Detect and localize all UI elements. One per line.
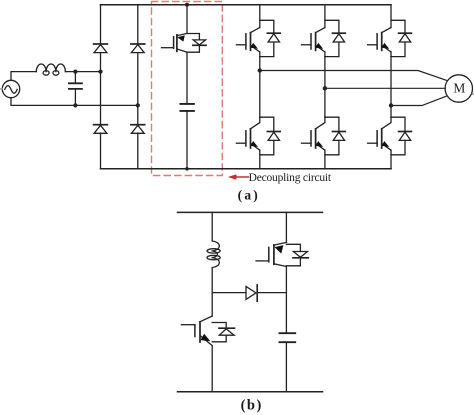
section b bottom rail [178, 391, 323, 393]
node phase B [323, 86, 327, 90]
igbt Q4 inverter leg A bottom [236, 117, 280, 169]
motor M [445, 75, 474, 102]
wire leg B mid [324, 57, 326, 118]
wire b middle link right [257, 292, 286, 294]
capacitor Cb [280, 333, 296, 342]
igbt Q6 inverter leg C bottom [368, 117, 412, 169]
wire b right upper [285, 212, 287, 242]
diode D3 [94, 125, 108, 134]
wire decoupling branch mid [186, 52, 188, 104]
wire b left upper [211, 212, 213, 241]
wire leg C mid [390, 57, 392, 118]
wire decoupling branch upper [186, 5, 188, 34]
wire b right lower [285, 342, 287, 392]
diode Db series [246, 285, 257, 301]
capacitor Cd [180, 104, 194, 111]
node filter cap top [73, 70, 77, 74]
wire rectifier leg2 [137, 5, 139, 169]
svg-text:(b): (b) [241, 398, 263, 414]
node decoupling branch bottom [185, 167, 189, 171]
diode D2 [131, 44, 145, 53]
wire phase B to motor [325, 87, 445, 89]
wire b right mid [285, 267, 287, 334]
section b top rail [178, 211, 323, 213]
capacitor Cf [69, 72, 82, 106]
igbt Q5 inverter leg B bottom [302, 117, 346, 169]
igbt Q7 decoupling (mirrored) [162, 33, 207, 52]
inductor Lb [207, 241, 220, 268]
red arrow to decoupling box [228, 174, 249, 179]
node ac bottom to leg2 [136, 103, 140, 107]
inductor Ls [36, 64, 65, 75]
wire b left mid [211, 268, 213, 316]
node filter cap bottom [73, 103, 77, 107]
igbt Q2 inverter leg B top [302, 5, 346, 57]
wire phase A to motor [260, 71, 448, 81]
wire phase C to motor [391, 96, 447, 106]
svg-text:(a): (a) [238, 187, 260, 202]
diode D4 [131, 125, 145, 134]
svg-text:M: M [453, 80, 465, 95]
svg-text:Decoupling circuit: Decoupling circuit [249, 172, 332, 184]
dc top bus wire [101, 4, 392, 6]
node phase C [389, 103, 393, 107]
wire rectifier leg1 [100, 5, 102, 169]
igbt Q3 inverter leg C top [368, 5, 412, 57]
wire inductor to rectifier leg1 [65, 71, 100, 73]
diode D1 [94, 44, 108, 53]
node ac top to leg1 [98, 70, 102, 74]
igbt Qb upper-right (mirrored) [256, 242, 308, 266]
wire b middle link left [212, 292, 246, 294]
node decoupling branch top [185, 3, 189, 7]
wire ac bottom lead [11, 98, 138, 106]
igbt Q1 inverter leg A top [236, 5, 280, 57]
wire leg A mid [259, 57, 261, 118]
wire decoupling branch lower [186, 111, 188, 169]
node phase A [258, 68, 262, 72]
wire ac top lead [11, 72, 36, 81]
ac source VS [0, 80, 20, 97]
dc bottom bus wire [101, 168, 392, 170]
igbt Qb lower-left [181, 316, 234, 392]
red dashed box around decoupling circuit [152, 2, 223, 176]
